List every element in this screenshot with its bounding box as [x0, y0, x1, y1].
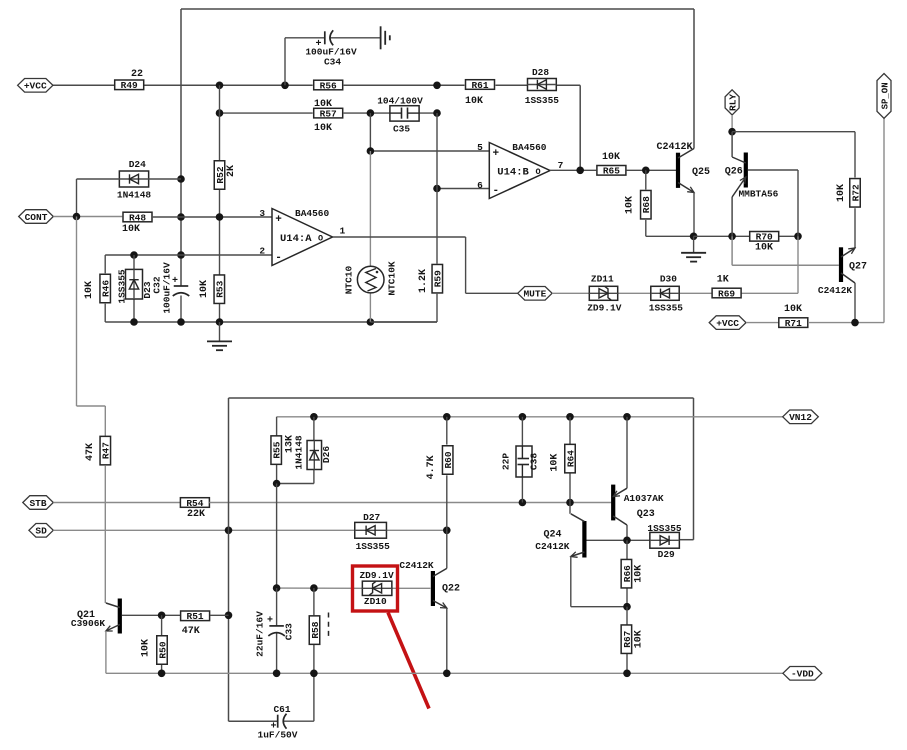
- resistor R47: [100, 436, 112, 465]
- svg-text:BA4560: BA4560: [512, 142, 547, 153]
- capacitor C35: [390, 106, 419, 121]
- diode D30: [651, 286, 679, 300]
- label R64 value 10K: [550, 454, 561, 472]
- svg-text:R54: R54: [186, 498, 203, 509]
- wire +VCC rail: [53, 85, 580, 170]
- label D26 part 1N4148: [294, 435, 305, 470]
- junction pin2 row / D23 column: [130, 251, 138, 259]
- junction CONT / D24 branch / down-feed: [73, 213, 81, 221]
- label ZD11 name: [591, 274, 614, 285]
- svg-text:-: -: [275, 252, 282, 264]
- label C38 name: [529, 453, 540, 470]
- wire R55 leads: [276, 417, 278, 484]
- junction R66/R67 node: [623, 603, 631, 611]
- wire CONT down-feed to R47: [77, 217, 106, 437]
- svg-text:D26: D26: [321, 446, 332, 463]
- label Q25 name: [692, 167, 710, 178]
- svg-text:ZD10: ZD10: [364, 596, 387, 607]
- wire Q22 emitter down: [446, 608, 448, 673]
- svg-text:22K: 22K: [187, 509, 205, 520]
- svg-text:R71: R71: [785, 318, 802, 329]
- svg-text:+: +: [275, 214, 282, 226]
- wire top border net (U14:A inverting bus): [181, 9, 694, 286]
- svg-text:10K: 10K: [84, 281, 95, 299]
- net flag RLY: [725, 90, 739, 115]
- label R51 value 47K: [182, 626, 200, 637]
- svg-text:R48: R48: [129, 212, 146, 223]
- wire R66 leads: [626, 540, 628, 606]
- wire D24 branch: [77, 179, 182, 217]
- junction D24 cathode / x181 bus: [177, 175, 185, 183]
- wire +VCC to R71: [746, 322, 779, 324]
- svg-text:-VDD: -VDD: [791, 669, 814, 680]
- junction R57 row / R59 column: [433, 109, 441, 117]
- label Q22 name: [442, 584, 460, 595]
- wire CONT to R48: [53, 216, 122, 218]
- svg-text:22P: 22P: [501, 453, 512, 470]
- svg-text:1SS355: 1SS355: [525, 95, 560, 106]
- junction VN12 row / D26: [310, 413, 318, 421]
- transistor Q22: [431, 568, 447, 608]
- junction bottom row / D23: [130, 318, 138, 326]
- label R52 value 2K: [226, 165, 237, 177]
- wire R71 to SP_ON riser: [808, 118, 884, 322]
- junction R70 right / R69 riser: [794, 233, 802, 241]
- net flag +VCC (at R71): [709, 316, 746, 330]
- junction VN12 row / Q23 emitter: [623, 413, 631, 421]
- wire D29 row: [587, 539, 650, 541]
- label U14:A pin 2: [259, 246, 265, 257]
- net flag STB: [23, 496, 54, 510]
- resistor R49: [115, 80, 144, 91]
- wire C34 branch: [285, 38, 381, 86]
- svg-text:6: 6: [477, 180, 483, 191]
- svg-text:U14:A: U14:A: [280, 233, 312, 245]
- label R46 value 10K: [84, 281, 95, 299]
- svg-text:1N4148: 1N4148: [294, 435, 305, 470]
- svg-text:104/100V: 104/100V: [377, 96, 423, 107]
- transistor Q25: [676, 149, 694, 193]
- resistor R71: [779, 318, 808, 329]
- diode D24: [119, 171, 148, 187]
- junction ZD10 row / R58: [310, 584, 318, 592]
- wire R47 to Q21 collector: [104, 465, 106, 603]
- label R47 value 47K: [85, 443, 96, 461]
- junction VN12 row / R60: [443, 413, 451, 421]
- label Q25 part C2412K: [656, 142, 692, 153]
- label R70 value 10K: [755, 243, 773, 254]
- svg-text:R53: R53: [215, 280, 226, 297]
- label Q22 part C2412K: [399, 560, 434, 571]
- label R50 value 10K: [141, 639, 152, 657]
- highlight red arrow: [388, 613, 429, 709]
- svg-text:D29: D29: [658, 549, 675, 560]
- ground (below R53): [207, 322, 232, 350]
- label Q21 part C3906K: [71, 618, 106, 629]
- label R71 value 10K: [784, 304, 802, 315]
- wire Q27 collector down: [854, 283, 856, 323]
- svg-text:C34: C34: [324, 57, 341, 68]
- svg-text:Q27: Q27: [849, 262, 867, 273]
- resistor R54: [180, 498, 209, 509]
- label D26 name: [321, 446, 332, 463]
- diode D29: [650, 532, 680, 548]
- svg-text:U14:B: U14:B: [497, 166, 529, 178]
- label R65 value 10K: [602, 152, 620, 163]
- wire ZD10 row: [277, 587, 431, 589]
- label Q24 name: [543, 530, 561, 541]
- wire R72 to Q27 emitter: [854, 208, 856, 248]
- label R72 value 10K: [836, 184, 847, 202]
- wire U14:B output row: [550, 169, 676, 171]
- wire R48 to U14:A pin3: [153, 216, 272, 218]
- resistor R46: [100, 274, 112, 303]
- label R67 value 10K: [634, 630, 645, 648]
- label ZD10 name: [364, 596, 387, 607]
- svg-text:R69: R69: [718, 288, 735, 299]
- svg-text:2K: 2K: [226, 165, 237, 177]
- label R55 value 13K: [285, 435, 296, 453]
- svg-text:10K: 10K: [122, 224, 140, 235]
- svg-text:R52: R52: [215, 166, 226, 183]
- wire VN12 row: [277, 416, 783, 418]
- junction RLY node: [728, 128, 736, 136]
- wire Q27 base row: [732, 236, 839, 265]
- label Q24 part C2412K: [535, 541, 570, 552]
- junction ground row / Q25 emitter: [690, 233, 698, 241]
- svg-text:47K: 47K: [182, 626, 200, 637]
- junction NTC link tee: [367, 147, 375, 155]
- label U14:A pin 1: [340, 226, 346, 237]
- capacitor C33: [255, 588, 295, 673]
- svg-text:C35: C35: [393, 124, 410, 135]
- resistor R65: [597, 166, 626, 177]
- svg-text:22: 22: [131, 69, 143, 80]
- wire RLY node to R72: [732, 132, 855, 178]
- highlight red box around ZD10: [353, 566, 398, 611]
- junction D29 row / R66: [623, 537, 631, 545]
- junction R57 row / R52 column: [216, 109, 224, 117]
- svg-text:RLY: RLY: [728, 94, 739, 111]
- junction +VCC rail / C34 branch: [281, 82, 289, 90]
- svg-text:R66: R66: [622, 565, 633, 582]
- label R54 value 22K: [187, 509, 205, 520]
- svg-text:10K: 10K: [314, 123, 332, 134]
- net flag +VCC (top left): [18, 79, 53, 93]
- wire D26 leads: [277, 417, 314, 484]
- ground (below Q25): [681, 236, 706, 261]
- label R58 missing value dashes: [328, 613, 330, 637]
- wire R50 leads: [161, 615, 163, 673]
- label D23 name: [142, 281, 153, 298]
- svg-text:4.7K: 4.7K: [426, 455, 437, 479]
- svg-text:10K: 10K: [634, 630, 645, 648]
- svg-text:R50: R50: [157, 641, 168, 658]
- junction STB row / C38: [519, 499, 527, 507]
- svg-text:10K: 10K: [199, 280, 210, 298]
- svg-text:R59: R59: [433, 270, 444, 287]
- net flag SP_ON: [877, 74, 891, 119]
- svg-text:R55: R55: [272, 441, 283, 458]
- junction VN12 row / R64: [566, 413, 574, 421]
- junction pin3 row / R52-R53 column: [216, 213, 224, 221]
- junction U14:A pin2 row / x181 bus: [177, 251, 185, 259]
- wire R64 leads: [569, 417, 571, 503]
- net flag -VDD: [783, 667, 822, 681]
- label D28 name: [532, 67, 549, 78]
- wire C38 leads: [521, 417, 523, 503]
- capacitor C32: [152, 262, 190, 314]
- svg-text:NTC10K: NTC10K: [387, 261, 398, 296]
- label R61 value 10K: [465, 96, 483, 107]
- junction output row / R68: [642, 167, 650, 175]
- label ZD10 value ZD9.1V: [359, 570, 394, 581]
- label R59 value 1.2K: [418, 269, 429, 293]
- label R60 value 4.7K: [426, 455, 437, 479]
- svg-text:R51: R51: [187, 611, 204, 622]
- svg-text:C2412K: C2412K: [818, 285, 853, 296]
- capacitor C61: [258, 704, 298, 741]
- resistor R70: [750, 232, 779, 243]
- wire NTC leads: [369, 151, 371, 322]
- svg-text:MMBTA56: MMBTA56: [738, 189, 778, 200]
- junction box left edge / R51: [225, 612, 233, 620]
- transistor Q26: [732, 132, 798, 237]
- op-amp U14:A: [272, 208, 333, 266]
- resistor R66: [621, 559, 633, 588]
- net flag MUTE: [518, 287, 552, 301]
- wire D23 leads: [133, 255, 135, 322]
- wire R68 leads: [646, 170, 694, 236]
- wire R58 leads: [284, 588, 314, 721]
- label R68 value 10K: [625, 196, 636, 214]
- junction bottom row / ground stem: [216, 318, 224, 326]
- svg-text:10K: 10K: [836, 184, 847, 202]
- resistor R52: [214, 161, 226, 190]
- svg-text:1SS355: 1SS355: [649, 303, 684, 314]
- thermistor NTC10K: [357, 266, 384, 293]
- wire SD loop box: [229, 398, 694, 721]
- svg-text:MUTE: MUTE: [523, 289, 546, 300]
- svg-text:1uF/50V: 1uF/50V: [258, 730, 298, 741]
- svg-text:+: +: [492, 148, 499, 160]
- wire U14:A pin2 row: [105, 254, 272, 256]
- svg-text:10K: 10K: [634, 565, 645, 583]
- junction R55/D26 node: [273, 480, 281, 488]
- svg-text:R64: R64: [565, 450, 576, 467]
- transistor Q27: [839, 247, 855, 283]
- svg-text:R67: R67: [622, 630, 633, 647]
- wire R67 leads: [626, 607, 628, 674]
- op-amp U14:B: [489, 142, 550, 199]
- label Q23 name: [637, 509, 655, 520]
- resistor R50: [157, 636, 169, 665]
- label R49 value 22: [131, 69, 143, 80]
- transistor Q24: [570, 503, 627, 607]
- label D23 part 1SS355: [117, 269, 128, 304]
- wire RLY stem: [731, 115, 733, 132]
- svg-text:Q24: Q24: [543, 530, 561, 541]
- svg-text:10K: 10K: [141, 639, 152, 657]
- label ZD11 value ZD9.1V: [587, 303, 622, 314]
- label D30 name: [660, 274, 677, 285]
- label R66 value 10K: [634, 565, 645, 583]
- wire R51 to box edge: [210, 614, 229, 616]
- svg-text:STB: STB: [29, 498, 46, 509]
- junction STB row / R64 and Q24 collector: [566, 499, 574, 507]
- svg-text:Q25: Q25: [692, 167, 710, 178]
- resistor R58: [309, 616, 321, 645]
- label D28 part 1SS355: [525, 95, 560, 106]
- wire R54 to Q23 base: [209, 502, 612, 504]
- label C35 value 104/100V: [377, 96, 423, 107]
- svg-text:+VCC: +VCC: [716, 318, 739, 329]
- svg-text:1N4148: 1N4148: [117, 190, 152, 201]
- svg-text:D28: D28: [532, 67, 549, 78]
- diode D28: [528, 79, 557, 91]
- svg-text:C38: C38: [529, 453, 540, 470]
- label C38 value 22P: [501, 453, 512, 470]
- wire NTC link (pin5 feedback): [370, 113, 489, 151]
- resistor R64: [565, 444, 577, 473]
- label D29 name: [658, 549, 675, 560]
- label Q26 part MMBTA56: [738, 189, 778, 200]
- wire R52 column: [219, 85, 221, 322]
- svg-text:SP_ON: SP_ON: [880, 82, 890, 109]
- label Q27 part C2412K: [818, 285, 853, 296]
- svg-text:O: O: [535, 167, 540, 177]
- label NTC10K (right): [387, 261, 398, 296]
- wire C32 bottom lead: [180, 296, 182, 323]
- junction R71 row / Q27 collector: [851, 319, 859, 327]
- label D27 part 1SS355: [356, 541, 391, 552]
- svg-text:1.2K: 1.2K: [418, 269, 429, 293]
- wire Q22 collector up: [446, 530, 448, 568]
- net flag SD: [29, 524, 53, 538]
- junction VN12 row / C38: [519, 413, 527, 421]
- resistor R57: [314, 108, 343, 119]
- wire Q21 base row: [122, 614, 180, 616]
- svg-text:ZD9.1V: ZD9.1V: [587, 303, 622, 314]
- transistor Q21: [106, 599, 122, 634]
- junction R57 row / NTC column: [367, 109, 375, 117]
- capacitor C38: [516, 446, 532, 477]
- label D24 name: [129, 159, 146, 170]
- wire U14:A output to MUTE: [333, 237, 518, 293]
- junction SD row / box left edge: [225, 527, 233, 535]
- wire ground row to R70: [694, 235, 798, 237]
- resistor R67: [621, 625, 633, 654]
- zener diode ZD10: [362, 581, 392, 595]
- svg-text:R68: R68: [641, 196, 652, 213]
- junction SD row / R60 / Q22 collector: [443, 527, 451, 535]
- junction -VDD row / R50: [158, 670, 166, 678]
- svg-text:ZD11: ZD11: [591, 274, 614, 285]
- junction bottom row / NTC: [367, 318, 375, 326]
- diode D23: [126, 269, 143, 299]
- junction R48 right / x181 bus: [177, 213, 185, 221]
- label D30 part 1SS355: [649, 303, 684, 314]
- label U14:B pin 7: [558, 160, 564, 171]
- junction ZD10 row / C33: [273, 584, 281, 592]
- label U14:B pin 6: [477, 180, 483, 191]
- wire ground row of U14:A section: [105, 321, 437, 323]
- resistor R48: [123, 212, 152, 223]
- junction +VCC rail / R52 column: [216, 82, 224, 90]
- svg-text:7: 7: [558, 160, 564, 171]
- svg-text:BA4560: BA4560: [295, 208, 330, 219]
- svg-text:D24: D24: [129, 159, 146, 170]
- transistor Q23: [611, 417, 627, 541]
- svg-text:C2412K: C2412K: [399, 560, 434, 571]
- svg-text:R72: R72: [850, 184, 861, 201]
- wire MUTE row: [552, 236, 798, 293]
- junction -VDD row / R67: [623, 670, 631, 678]
- svg-text:Q22: Q22: [442, 584, 460, 595]
- svg-text:10K: 10K: [625, 196, 636, 214]
- junction bottom row / C32: [177, 318, 185, 326]
- svg-text:R58: R58: [310, 621, 321, 638]
- junction ground row / Q26 collector: [728, 233, 736, 241]
- wire U14:B pin6 row: [437, 188, 489, 190]
- svg-text:C2412K: C2412K: [656, 142, 692, 153]
- svg-text:R57: R57: [320, 109, 337, 120]
- label R53 value 10K: [199, 280, 210, 298]
- svg-text:A1037AK: A1037AK: [624, 493, 664, 504]
- resistor R61: [466, 80, 495, 91]
- svg-text:+: +: [172, 276, 178, 287]
- svg-text:Q23: Q23: [637, 509, 655, 520]
- resistor R59: [432, 264, 444, 293]
- svg-text:C61: C61: [273, 704, 290, 715]
- wire R60 leads: [446, 417, 448, 531]
- label Q23 part A1037AK: [624, 493, 664, 504]
- svg-text:O: O: [318, 233, 323, 243]
- svg-text:CONT: CONT: [25, 212, 48, 223]
- svg-text:2: 2: [259, 246, 265, 257]
- resistor R68: [641, 190, 653, 219]
- svg-text:1SS355: 1SS355: [647, 523, 682, 534]
- svg-text:Q26: Q26: [725, 167, 743, 178]
- label R56 value 10K: [314, 99, 332, 110]
- resistor R56: [314, 80, 343, 91]
- wire Q25 emitter to ground row: [693, 193, 695, 237]
- svg-text:D30: D30: [660, 274, 677, 285]
- svg-text:+VCC: +VCC: [24, 81, 47, 92]
- ground (right of C34): [381, 26, 390, 49]
- diode D27: [355, 522, 387, 538]
- svg-text:-: -: [492, 185, 499, 197]
- wire R46 leads: [104, 255, 106, 322]
- svg-text:5: 5: [477, 142, 483, 153]
- wire R59 column: [370, 113, 437, 322]
- svg-text:R65: R65: [603, 166, 620, 177]
- svg-text:D27: D27: [363, 512, 380, 523]
- wire R57 row: [220, 112, 438, 114]
- junction -VDD row / Q22 emitter: [443, 670, 451, 678]
- zener diode ZD11: [589, 286, 617, 300]
- junction -VDD row / R58: [310, 670, 318, 678]
- label Q26 name: [725, 167, 743, 178]
- svg-text:R70: R70: [756, 232, 773, 243]
- svg-text:R49: R49: [121, 80, 138, 91]
- junction +VCC rail / R59 column: [433, 82, 441, 90]
- label C35 name: [393, 124, 410, 135]
- svg-text:R56: R56: [320, 80, 337, 91]
- junction -VDD row / C33: [273, 670, 281, 678]
- label D27 name: [363, 512, 380, 523]
- junction pin6 row / R59 column: [433, 185, 441, 193]
